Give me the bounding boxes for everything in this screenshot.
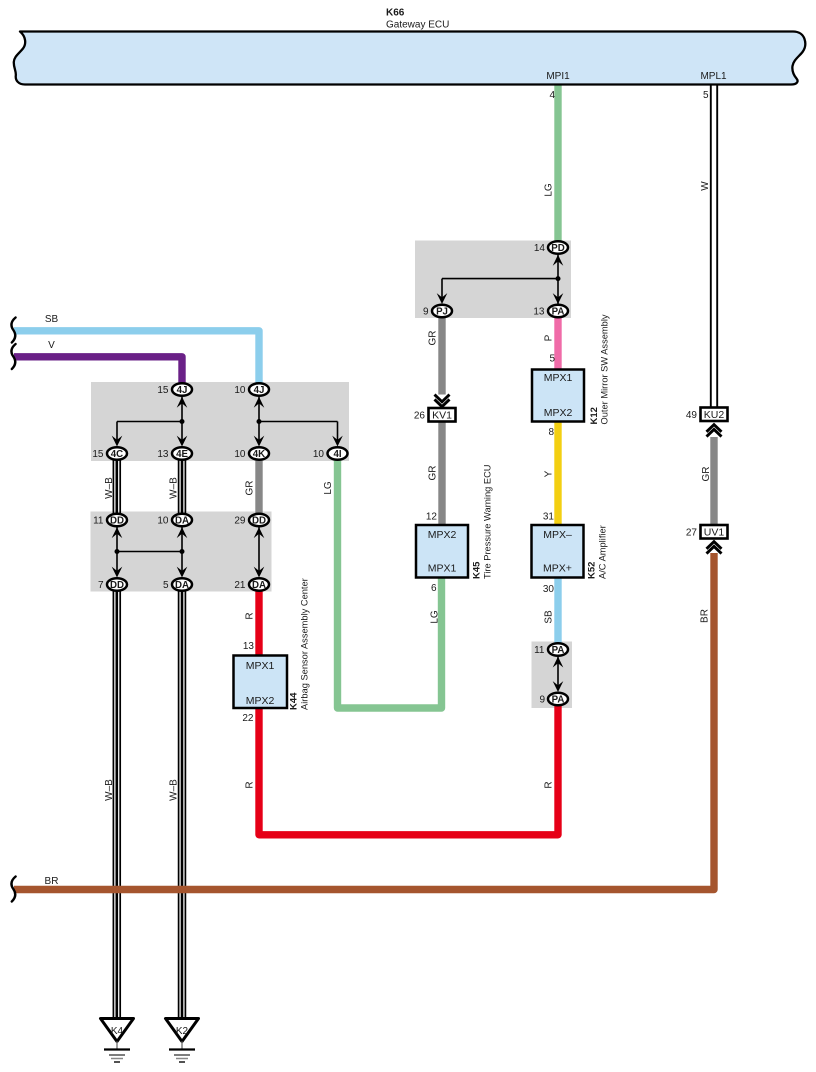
svg-text:MPL1: MPL1 — [700, 71, 727, 82]
svg-text:4I: 4I — [333, 449, 341, 460]
svg-text:R: R — [544, 781, 555, 788]
svg-text:P: P — [544, 334, 555, 341]
svg-text:GR: GR — [701, 467, 712, 482]
svg-text:R: R — [245, 612, 256, 619]
svg-text:4K: 4K — [253, 449, 265, 460]
svg-text:KV1: KV1 — [432, 410, 452, 422]
svg-text:MPX2: MPX2 — [544, 407, 573, 419]
svg-text:MPI1: MPI1 — [546, 71, 570, 82]
svg-text:K2: K2 — [176, 1026, 189, 1037]
svg-text:SB: SB — [45, 314, 59, 325]
svg-text:SB: SB — [544, 610, 555, 624]
svg-text:K66: K66 — [386, 8, 405, 19]
svg-text:10: 10 — [313, 449, 325, 460]
svg-text:11: 11 — [93, 516, 104, 527]
svg-text:6: 6 — [431, 583, 437, 594]
svg-text:13: 13 — [533, 307, 545, 318]
svg-text:14: 14 — [534, 243, 546, 254]
svg-text:MPX1: MPX1 — [544, 372, 573, 384]
svg-text:22: 22 — [242, 713, 254, 724]
svg-text:21: 21 — [234, 580, 246, 591]
svg-text:PA: PA — [552, 645, 565, 656]
svg-text:13: 13 — [157, 449, 169, 460]
svg-text:DD: DD — [110, 516, 124, 527]
svg-text:Tire Pressure Warning ECU: Tire Pressure Warning ECU — [483, 464, 493, 579]
svg-text:Y: Y — [544, 470, 555, 477]
svg-text:LG: LG — [544, 183, 555, 197]
svg-text:MPX2: MPX2 — [246, 695, 275, 707]
svg-text:W–B: W–B — [104, 477, 115, 499]
svg-text:BR: BR — [45, 876, 59, 887]
svg-text:12: 12 — [426, 512, 438, 523]
svg-text:GR: GR — [428, 331, 439, 346]
svg-text:5: 5 — [703, 90, 709, 101]
svg-text:5: 5 — [163, 580, 169, 591]
svg-text:W–B: W–B — [104, 779, 115, 801]
svg-text:27: 27 — [686, 528, 698, 539]
svg-text:Outer Mirror SW Assembly: Outer Mirror SW Assembly — [600, 314, 610, 424]
svg-text:DA: DA — [175, 516, 189, 527]
svg-text:8: 8 — [548, 427, 554, 438]
svg-text:30: 30 — [543, 584, 555, 595]
svg-text:MPX1: MPX1 — [428, 563, 457, 575]
svg-text:9: 9 — [539, 695, 545, 706]
svg-text:4J: 4J — [254, 385, 265, 396]
svg-text:Gateway ECU: Gateway ECU — [386, 20, 449, 31]
svg-text:31: 31 — [543, 512, 555, 523]
svg-text:4: 4 — [549, 90, 555, 101]
svg-text:10: 10 — [157, 516, 169, 527]
svg-text:DD: DD — [110, 580, 124, 591]
svg-text:4C: 4C — [111, 449, 123, 460]
svg-text:PD: PD — [551, 243, 564, 254]
svg-text:A/C Amplifier: A/C Amplifier — [598, 525, 608, 579]
svg-text:10: 10 — [234, 449, 246, 460]
svg-text:MPX+: MPX+ — [543, 563, 572, 575]
svg-text:15: 15 — [92, 449, 104, 460]
svg-text:GR: GR — [245, 481, 256, 496]
svg-text:LG: LG — [323, 481, 334, 495]
svg-text:4J: 4J — [177, 385, 188, 396]
svg-text:5: 5 — [549, 354, 555, 365]
svg-text:KU2: KU2 — [704, 409, 725, 421]
svg-text:15: 15 — [157, 385, 169, 396]
svg-text:DD: DD — [252, 516, 266, 527]
svg-text:K52: K52 — [587, 562, 598, 579]
svg-text:R: R — [245, 781, 256, 788]
svg-text:26: 26 — [414, 411, 426, 422]
svg-text:MPX1: MPX1 — [246, 660, 275, 672]
svg-text:K4: K4 — [111, 1026, 124, 1037]
svg-text:4E: 4E — [176, 449, 188, 460]
svg-text:PJ: PJ — [436, 307, 448, 318]
svg-text:W–B: W–B — [168, 779, 179, 801]
svg-text:LG: LG — [430, 610, 441, 624]
svg-text:11: 11 — [534, 645, 545, 656]
svg-text:10: 10 — [234, 385, 246, 396]
svg-text:9: 9 — [423, 307, 429, 318]
svg-text:W: W — [700, 181, 711, 191]
svg-text:Airbag Sensor Assembly Center: Airbag Sensor Assembly Center — [300, 578, 310, 710]
svg-text:MPX–: MPX– — [543, 529, 572, 541]
svg-text:V: V — [48, 340, 55, 351]
svg-text:GR: GR — [428, 466, 439, 481]
svg-text:DA: DA — [252, 580, 266, 591]
svg-text:MPX2: MPX2 — [428, 529, 457, 541]
svg-text:UV1: UV1 — [704, 527, 725, 539]
svg-text:7: 7 — [98, 580, 104, 591]
svg-text:PA: PA — [552, 695, 565, 706]
svg-text:BR: BR — [700, 609, 711, 623]
svg-text:13: 13 — [243, 641, 255, 652]
svg-text:K44: K44 — [289, 692, 300, 710]
svg-text:DA: DA — [175, 580, 189, 591]
svg-text:29: 29 — [234, 516, 246, 527]
svg-text:K45: K45 — [472, 561, 483, 579]
svg-text:49: 49 — [686, 410, 698, 421]
svg-text:W–B: W–B — [168, 477, 179, 499]
svg-text:K12: K12 — [589, 407, 600, 424]
svg-text:PA: PA — [552, 307, 565, 318]
